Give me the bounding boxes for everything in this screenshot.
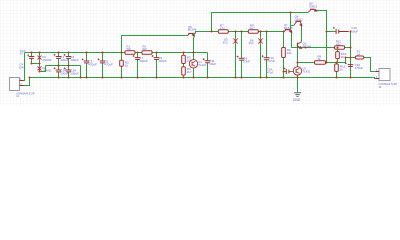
label C11 (209, 59, 216, 66)
junction dots (29, 12, 352, 79)
svg-text:47uF: 47uF (267, 70, 274, 74)
label C1 (60, 55, 69, 62)
label C2A (70, 68, 79, 75)
label Q4 C9012 (295, 15, 304, 22)
capacitor C2 (64, 53, 72, 66)
label R11 (336, 40, 342, 47)
svg-text:EY: EY (20, 52, 24, 55)
label C2 (70, 55, 79, 62)
svg-text:6V2: 6V2 (223, 41, 228, 45)
svg-text:104: 104 (19, 65, 24, 69)
wire U2 top (297, 63, 299, 67)
svg-text:GND: GND (293, 98, 301, 102)
resistor R12 (335, 63, 339, 78)
wire Q1 base stub (290, 13, 292, 30)
label C4 (19, 62, 24, 69)
svg-text:4k7: 4k7 (250, 26, 255, 30)
wire top link (212, 13, 309, 32)
label C15 (351, 26, 358, 33)
pin 2 J1 (20, 84, 22, 86)
svg-text:2A: 2A (357, 53, 361, 57)
svg-text:33nF: 33nF (243, 60, 250, 64)
shunt regulator U2 (TL431) (293, 67, 301, 75)
pin 1 J1 (20, 79, 22, 81)
wire from J1 pin1 (24, 53, 25, 81)
label C4 value (20, 50, 26, 55)
wire D2 out (40, 66, 46, 72)
label U1 TL431 (198, 60, 206, 67)
capacitor C6 (98, 53, 106, 78)
resistor R6 (282, 32, 286, 78)
wire C12 branch (284, 71, 294, 73)
svg-text:5W: 5W (127, 47, 131, 51)
wire U2 bottom (297, 75, 299, 77)
label R12 (340, 64, 346, 71)
svg-text:C9013: C9013 (309, 4, 318, 8)
capacitor C11 (203, 53, 211, 78)
label D6 (249, 38, 254, 45)
wire R11 right (345, 47, 351, 49)
label F1 (357, 50, 361, 57)
label GND (293, 98, 301, 102)
svg-text:2k: 2k (341, 55, 345, 59)
capacitor C10 (262, 32, 270, 78)
svg-text:43k: 43k (336, 42, 341, 46)
label Q5 BC548 (188, 25, 197, 32)
wire fuse feed (351, 57, 356, 59)
connector J2 (375, 69, 390, 81)
svg-text:1k: 1k (340, 67, 344, 71)
shunt regulator U1 (TL431) (189, 60, 197, 68)
pin 2 J2 (376, 77, 378, 79)
capacitor C2A (64, 66, 72, 78)
svg-text:4k7: 4k7 (187, 70, 192, 74)
svg-text:100uF: 100uF (139, 59, 148, 63)
resistor R1 (125, 51, 135, 55)
svg-text:470: 470 (220, 26, 225, 30)
pin 1 J2 (376, 70, 378, 72)
wire Q2 emitter line (292, 47, 335, 49)
capacitor C4 (27, 53, 34, 64)
resistor R10 (336, 48, 340, 63)
fuse F1 (355, 56, 364, 59)
label C1A (60, 68, 69, 75)
label J1 CON5A/4.5-2P (16, 91, 35, 98)
svg-text:BC548: BC548 (188, 28, 197, 32)
wire Q1 emitter drop (291, 33, 293, 48)
capacitor C1A (54, 66, 62, 78)
transistor Q5 (187, 34, 194, 39)
resistor R2 (120, 53, 124, 78)
capacitor C3 (82, 53, 90, 78)
resistor R3 (182, 53, 186, 78)
svg-text:1N4002: 1N4002 (43, 69, 53, 73)
wire U1 cathode (193, 38, 195, 60)
resistor R4 (182, 67, 186, 75)
svg-text:47uF: 47uF (268, 59, 275, 63)
label D5 (223, 38, 228, 45)
wire Q4 to Q2 (301, 26, 303, 42)
svg-text:J2: J2 (378, 85, 381, 89)
wire mid rail (46, 65, 81, 67)
label D4 1N4002 (43, 55, 53, 62)
label Q6 C9013 (309, 2, 318, 9)
wire Q4 emitter tie (291, 25, 294, 27)
label J2 CON5A/4.5-2P (378, 82, 397, 89)
zener D6 (258, 32, 262, 78)
transistor Q2 (298, 42, 302, 48)
wire feedback (298, 58, 351, 63)
label R7 (220, 24, 225, 31)
label C6 (104, 59, 113, 66)
wire mid rail drop (80, 66, 82, 78)
wire from J1 pin2 (24, 78, 30, 86)
label R3 (187, 56, 192, 63)
label C7 (139, 56, 148, 63)
wire top rail (25, 52, 208, 54)
wire W2 (193, 32, 283, 34)
transistor Q6 (308, 9, 316, 12)
label C5A (267, 67, 274, 74)
wire GND drop (297, 78, 299, 93)
label C9 (158, 56, 167, 63)
svg-text:TL431: TL431 (302, 70, 310, 74)
svg-text:BC548: BC548 (303, 45, 312, 49)
svg-text:J1: J1 (16, 94, 19, 98)
svg-text:10k: 10k (287, 51, 292, 55)
svg-text:6V2: 6V2 (249, 41, 254, 45)
svg-text:470uF: 470uF (355, 66, 364, 70)
capacitor C12 (284, 68, 289, 75)
label C10 (268, 56, 275, 63)
wire Q6 emitter drop (317, 11, 327, 63)
wire W1 base feed (122, 36, 188, 53)
resistor R7 (218, 30, 228, 33)
label R10 (341, 52, 347, 59)
svg-text:C9012: C9012 (295, 18, 304, 22)
svg-text:5W: 5W (143, 47, 147, 51)
wire R4 stub (183, 75, 185, 77)
svg-text:10uF: 10uF (209, 62, 216, 66)
label R5 (143, 44, 147, 51)
label R2 (125, 61, 129, 68)
svg-text:1k: 1k (317, 57, 321, 61)
label R4 (187, 67, 192, 74)
svg-text:TL431: TL431 (198, 63, 206, 67)
label Q1 BC548 (284, 23, 293, 30)
svg-text:470uF: 470uF (88, 62, 97, 66)
resistor R8 (248, 30, 258, 33)
svg-text:BC548: BC548 (284, 26, 293, 30)
capacitor C15 (333, 27, 349, 34)
transistor Q1 (283, 30, 291, 33)
diode D2 (38, 64, 42, 72)
label R8 (250, 24, 255, 31)
zener D5 (233, 32, 237, 78)
label C3 (88, 59, 97, 66)
wire bottom rail (30, 78, 376, 79)
diode D4 (38, 53, 42, 64)
wire fuse to J2 pin1 (364, 58, 375, 72)
label C8 (243, 57, 250, 64)
capacitor C9 (152, 53, 160, 78)
svg-text:100uF: 100uF (158, 59, 167, 63)
svg-text:100uF: 100uF (70, 58, 79, 62)
capacitor C16 (345, 63, 353, 67)
capacitor C8 (237, 32, 245, 78)
svg-text:470uF: 470uF (104, 62, 113, 66)
label R1 (127, 44, 131, 51)
resistor R9 (315, 61, 326, 64)
wire Q2 base drop (297, 47, 299, 62)
svg-text:10uF: 10uF (351, 29, 358, 33)
connector J1 (10, 78, 24, 91)
label R6 (287, 48, 292, 55)
wire U1 anode (193, 68, 195, 78)
label U2 TL431 (302, 67, 310, 74)
label D2 1N4002 (43, 66, 53, 73)
svg-text:1k: 1k (125, 64, 129, 68)
svg-text:100uF: 100uF (70, 71, 79, 75)
capacitor C1 (54, 53, 62, 66)
transistor Q4 (294, 21, 302, 26)
label Q2 BC548 (303, 42, 312, 49)
ground (294, 93, 301, 97)
wire doubler node (32, 63, 40, 65)
resistor R11 (335, 46, 345, 49)
wire C15 left branch (327, 31, 336, 33)
capacitor C7 (133, 53, 141, 78)
svg-text:1N4002: 1N4002 (43, 58, 53, 62)
resistor R5 (142, 51, 152, 55)
label C16 (355, 63, 364, 70)
label R9 (317, 54, 321, 61)
wire right vertical drop (350, 32, 352, 78)
